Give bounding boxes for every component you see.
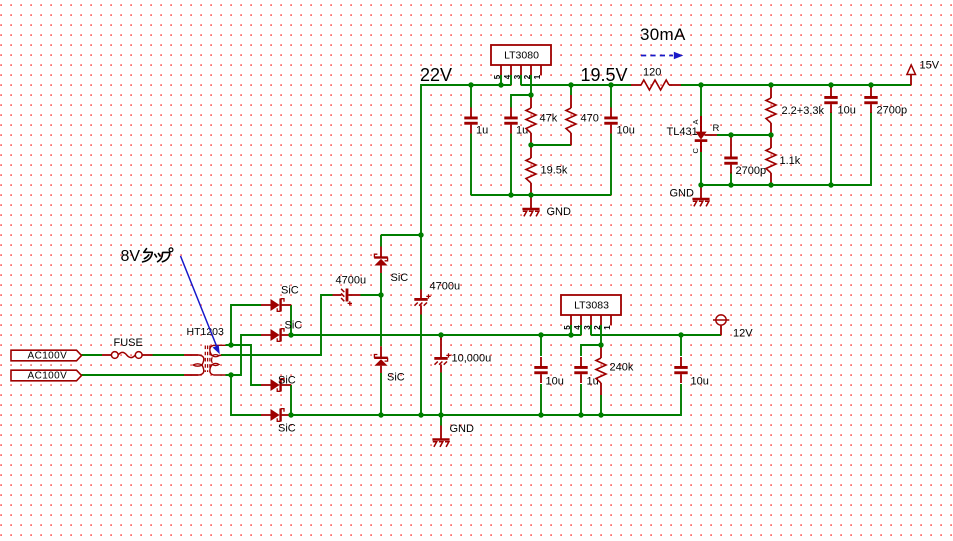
junction at 831,185 bbox=[828, 182, 833, 187]
resistor R7 240k bbox=[596, 345, 606, 395]
wire tap riser bbox=[321, 295, 333, 356]
wire D1 cathode drop bbox=[290, 305, 292, 335]
U3 pin A label bbox=[691, 119, 700, 124]
resistor R3 19.5k bbox=[526, 145, 536, 195]
svg-text:1.1k: 1.1k bbox=[780, 155, 801, 167]
wire C8 top lead bbox=[420, 235, 422, 290]
svg-text:470: 470 bbox=[581, 113, 599, 125]
C8 value 4700u bbox=[430, 281, 461, 293]
annotation 8V tap katakana bbox=[143, 248, 173, 262]
resistor R6 1.1k bbox=[766, 135, 776, 185]
U2 pin number 4 bbox=[573, 325, 582, 330]
svg-text:SiC: SiC bbox=[281, 285, 299, 297]
svg-text:47k: 47k bbox=[540, 113, 558, 125]
wire D5 bottom lead bbox=[380, 273, 382, 295]
junction at 831,85 bbox=[828, 82, 833, 87]
wire C1 bottom lead bbox=[470, 134, 472, 196]
svg-text:10u: 10u bbox=[838, 105, 856, 117]
U1 pin number 5 bbox=[493, 74, 502, 79]
U2 pin number 1 bbox=[603, 325, 612, 330]
svg-text:2700p: 2700p bbox=[736, 165, 767, 177]
svg-text:LT3083: LT3083 bbox=[574, 300, 609, 312]
terminal AC100V 2 bbox=[11, 370, 82, 381]
svg-text:22V: 22V bbox=[420, 65, 452, 85]
svg-text:HT1203: HT1203 bbox=[187, 326, 225, 338]
svg-text:SiC: SiC bbox=[285, 320, 303, 332]
terminal 15V output bbox=[907, 65, 916, 85]
svg-text:12V: 12V bbox=[733, 328, 753, 340]
svg-text:1u: 1u bbox=[476, 125, 488, 137]
svg-text:AC100V: AC100V bbox=[28, 351, 68, 362]
U2 pin number 5 bbox=[563, 325, 572, 330]
capacitor C12 1u bbox=[574, 357, 587, 383]
diode D4 SiC bbox=[261, 409, 291, 422]
ground GND LT3080 bbox=[522, 195, 539, 216]
wire C10 bottom lead bbox=[540, 384, 542, 415]
svg-text:8V: 8V bbox=[121, 248, 141, 265]
wire rectified rail bbox=[291, 334, 581, 336]
wire C8 bottom lead bbox=[420, 315, 422, 416]
wire 22V rail drop bbox=[420, 84, 422, 235]
wire LT3080 pin2 lead bbox=[530, 75, 532, 95]
U2 label LT3083 bbox=[574, 300, 609, 312]
diode D2 SiC bbox=[261, 329, 291, 342]
junction at 291,335 bbox=[288, 332, 293, 337]
GND label bottom section bbox=[450, 423, 475, 435]
C4 value 4700u bbox=[336, 275, 367, 287]
wire TL431 ref bbox=[717, 134, 771, 136]
svg-text:19.5k: 19.5k bbox=[541, 165, 568, 177]
svg-text:2700p: 2700p bbox=[877, 105, 908, 117]
wire D3 cathode drop bbox=[290, 385, 292, 415]
svg-text:3: 3 bbox=[513, 74, 522, 79]
junction at 771,185 bbox=[768, 182, 773, 187]
node 19.5V label bbox=[581, 65, 628, 85]
U3 pin C label bbox=[691, 148, 700, 154]
svg-text:5: 5 bbox=[563, 325, 572, 330]
junction at 731,135 bbox=[728, 132, 733, 137]
wire C6 bottom lead bbox=[830, 112, 832, 185]
svg-text:TL431: TL431 bbox=[667, 126, 698, 138]
wire AC line 1 bbox=[82, 354, 103, 356]
terminal AC100V 1 bbox=[11, 350, 82, 361]
svg-text:1u: 1u bbox=[516, 125, 528, 137]
capacitor C3 10u bbox=[604, 108, 617, 134]
capacitor C2 1u bbox=[504, 108, 517, 134]
svg-text:3: 3 bbox=[583, 325, 592, 330]
wire C10 top lead bbox=[540, 335, 542, 356]
wire LT3080 pin4 lead bbox=[510, 75, 512, 85]
wire secondary bottom to D4 bbox=[231, 375, 261, 415]
annotation 8V tap text bbox=[121, 248, 141, 265]
R1 value 47k bbox=[540, 113, 558, 125]
wire C12 bottom lead bbox=[580, 384, 582, 415]
junction at 731,185 bbox=[728, 182, 733, 187]
wire D6 top lead bbox=[380, 295, 382, 346]
R5 value 2.2+3.3k bbox=[782, 105, 825, 117]
wire TL431 anode bbox=[700, 85, 702, 116]
R7 value 240k bbox=[610, 362, 634, 374]
wire C3 bottom lead bbox=[610, 134, 612, 196]
ground GND TL431 bbox=[692, 185, 709, 206]
R6 value 1.1k bbox=[780, 155, 801, 167]
junction at 441,335 bbox=[438, 332, 443, 337]
C5 value 2700p bbox=[736, 165, 767, 177]
junction at 531,95 bbox=[528, 92, 533, 97]
junction at 231,345 bbox=[228, 342, 233, 347]
R3 value 19.5k bbox=[541, 165, 568, 177]
diode D3 SiC bbox=[261, 379, 291, 392]
svg-text:2: 2 bbox=[593, 325, 602, 330]
svg-text:GND: GND bbox=[547, 206, 572, 218]
GND label LT3080 section bbox=[547, 206, 572, 218]
C6 value 10u bbox=[838, 105, 856, 117]
wire LT3083 pin2 lead bbox=[600, 325, 602, 345]
T1 label HT1203 bbox=[187, 326, 225, 338]
C1 value 1u bbox=[476, 125, 488, 137]
svg-text:4: 4 bbox=[503, 74, 512, 79]
svg-text:10,000u: 10,000u bbox=[452, 353, 492, 365]
wire C3 top lead bbox=[610, 85, 612, 108]
wire SET node jog bbox=[511, 95, 531, 108]
node 15V label bbox=[920, 60, 940, 72]
svg-text:1: 1 bbox=[603, 325, 612, 330]
U1 label LT3080 bbox=[504, 50, 539, 62]
svg-text:GND: GND bbox=[670, 188, 695, 200]
junction at 421,415 bbox=[418, 412, 423, 417]
C10 value 10u bbox=[546, 376, 564, 388]
capacitor C7 2700p bbox=[864, 87, 877, 113]
wire secondary top to D3 bbox=[226, 345, 262, 385]
diode D1 SiC bbox=[261, 299, 291, 312]
junction at 511,195 bbox=[508, 192, 513, 197]
op-amp U2 LT3083 body bbox=[561, 295, 621, 315]
junction at 501,85 bbox=[498, 82, 503, 87]
wire GND stem bottom bbox=[440, 415, 442, 426]
C9 top lead red bbox=[440, 335, 442, 340]
capacitor C6 10u bbox=[824, 87, 837, 113]
U2 pin number 3 bbox=[583, 325, 592, 330]
wire GND bus bottom bbox=[291, 384, 681, 415]
annotation 30mA bbox=[640, 25, 686, 44]
junction at 601,415 bbox=[598, 412, 603, 417]
wire 19.5V rail bbox=[521, 84, 631, 86]
wire node link 235 bbox=[381, 234, 421, 236]
wire LT3083 SET wire bbox=[581, 345, 601, 356]
capacitor C8 4700u bbox=[414, 290, 430, 315]
capacitor C9 10,000u bbox=[434, 336, 450, 373]
svg-text:10u: 10u bbox=[691, 376, 709, 388]
junction at 381,295 bbox=[378, 292, 383, 297]
U3 pin R label bbox=[713, 123, 720, 134]
junction at 531,145 bbox=[528, 142, 533, 147]
diode D5 SiC bbox=[374, 247, 388, 274]
junction at 541,415 bbox=[538, 412, 543, 417]
D2 label SiC bbox=[285, 320, 303, 332]
junction at 681,335 bbox=[678, 332, 683, 337]
R2 value 470 bbox=[581, 113, 599, 125]
C11 value 10u bbox=[691, 376, 709, 388]
wire LT3083 pin3 lead bbox=[590, 325, 592, 335]
svg-text:A: A bbox=[691, 119, 700, 124]
U1 pin number 3 bbox=[513, 74, 522, 79]
wire GND bus LT3080 bbox=[471, 194, 611, 196]
svg-text:SiC: SiC bbox=[391, 272, 409, 284]
wire LT3083 pin5 lead bbox=[570, 325, 572, 335]
junction at 231,375 bbox=[228, 372, 233, 377]
fuse F1 bbox=[102, 352, 153, 359]
junction at 601,345 bbox=[598, 342, 603, 347]
annotation arrow 8V tap bbox=[181, 256, 220, 354]
junction at 421,235 bbox=[418, 232, 423, 237]
junction at 701,85 bbox=[698, 82, 703, 87]
svg-text:4700u: 4700u bbox=[336, 275, 367, 287]
wire 15V rail bbox=[681, 84, 911, 86]
svg-text:SiC: SiC bbox=[278, 375, 296, 387]
svg-text:SiC: SiC bbox=[387, 372, 405, 384]
wire TL431 cathode bbox=[700, 152, 702, 185]
GND label TL431 section bbox=[670, 188, 695, 200]
junction at 771,85 bbox=[768, 82, 773, 87]
wire C4 to node bbox=[361, 294, 382, 296]
wire 22V rail bbox=[421, 84, 511, 86]
junction at 571,335 bbox=[568, 332, 573, 337]
U1 pin number 4 bbox=[503, 74, 512, 79]
R4 value 120 bbox=[643, 67, 661, 79]
svg-text:4700u: 4700u bbox=[430, 281, 461, 293]
svg-text:R: R bbox=[713, 123, 720, 134]
U3 label TL431 bbox=[667, 126, 698, 138]
junction at 541,335 bbox=[538, 332, 543, 337]
junction at 571,85 bbox=[568, 82, 573, 87]
junction at 701,185 bbox=[698, 182, 703, 187]
D5 label SiC bbox=[391, 272, 409, 284]
C7 value 2700p bbox=[877, 105, 908, 117]
wire secondary top to D1 bbox=[231, 305, 261, 345]
wire GND bus right bbox=[701, 112, 871, 185]
AC100V label 1 bbox=[28, 351, 68, 362]
node 22V label bbox=[420, 65, 452, 85]
junction at 611,85 bbox=[608, 82, 613, 87]
ground GND bottom bbox=[432, 426, 449, 447]
svg-text:2: 2 bbox=[523, 74, 532, 79]
C3 value 10u bbox=[617, 125, 635, 137]
D3 label SiC bbox=[278, 375, 296, 387]
svg-text:AC100V: AC100V bbox=[28, 371, 68, 382]
svg-text:15V: 15V bbox=[920, 60, 940, 72]
capacitor C4 4700u horizontal bbox=[333, 289, 361, 306]
capacitor C11 10u bbox=[674, 357, 687, 383]
svg-text:GND: GND bbox=[450, 423, 475, 435]
junction at 471,85 bbox=[468, 82, 473, 87]
wire D6 bottom lead bbox=[380, 373, 382, 415]
wire secondary bottom to D2 bbox=[226, 335, 262, 375]
D1 label SiC bbox=[281, 285, 299, 297]
svg-text:2.2+3.3k: 2.2+3.3k bbox=[782, 105, 825, 117]
U1 pin number 1 bbox=[533, 74, 542, 79]
resistor R2 470 bbox=[566, 95, 576, 145]
wire C2 bottom lead bbox=[510, 134, 512, 196]
svg-text:FUSE: FUSE bbox=[114, 337, 143, 349]
junction at 441,415 bbox=[438, 412, 443, 417]
svg-text:120: 120 bbox=[643, 67, 661, 79]
wire C1 top lead bbox=[470, 85, 472, 108]
junction at 871,85 bbox=[868, 82, 873, 87]
svg-text:LT3080: LT3080 bbox=[504, 50, 539, 62]
capacitor C1 1u bbox=[464, 108, 477, 134]
wire C6 top lead bbox=[830, 85, 832, 88]
wire R7 240k bottom lead bbox=[600, 395, 602, 415]
junction at 291,415 bbox=[288, 412, 293, 417]
capacitor C5 2700p bbox=[724, 148, 737, 174]
C9 value 10,000u bbox=[452, 353, 492, 365]
resistor R1 47k bbox=[526, 95, 536, 145]
svg-text:5: 5 bbox=[493, 74, 502, 79]
wire fuse to transformer bbox=[153, 354, 185, 356]
annotation current arrow 30mA bbox=[641, 52, 683, 60]
svg-text:30mA: 30mA bbox=[640, 25, 686, 44]
U1 pin stubs bbox=[501, 65, 541, 75]
svg-text:1: 1 bbox=[533, 74, 542, 79]
C2 value 1u bbox=[516, 125, 528, 137]
capacitor C10 10u bbox=[534, 357, 547, 383]
junction at 381,415 bbox=[378, 412, 383, 417]
wire LT3080 pin5 lead bbox=[500, 75, 502, 85]
svg-text:10u: 10u bbox=[546, 376, 564, 388]
wire LT3080 pin3 lead bbox=[520, 75, 522, 85]
op-amp U1 LT3080 body bbox=[491, 45, 551, 65]
wire divider mid link bbox=[531, 144, 571, 146]
svg-text:SiC: SiC bbox=[278, 423, 296, 435]
U2 pin stubs bbox=[571, 315, 611, 325]
C12 value 1u bbox=[587, 376, 599, 388]
junction at 581,415 bbox=[578, 412, 583, 417]
wire 8V tap bbox=[221, 354, 322, 356]
resistor R5 2.2+3.3k bbox=[766, 85, 776, 135]
diode D6 SiC bbox=[374, 346, 388, 373]
svg-text:4: 4 bbox=[573, 325, 582, 330]
U2 pin number 2 bbox=[593, 325, 602, 330]
AC100V label 2 bbox=[28, 371, 68, 382]
wire AC line 2 bbox=[82, 374, 185, 376]
resistor R4 120 bbox=[631, 80, 681, 90]
svg-text:10u: 10u bbox=[617, 125, 635, 137]
terminal 12V output bbox=[713, 315, 729, 335]
F1 label FUSE bbox=[114, 337, 143, 349]
wire LT3083 pin4 lead bbox=[580, 325, 582, 335]
wire R2 470 top lead bbox=[570, 85, 572, 95]
junction at 771,135 bbox=[768, 132, 773, 137]
U1 pin number 2 bbox=[523, 74, 532, 79]
wire C7 top lead bbox=[870, 85, 872, 88]
C5 top lead red bbox=[730, 136, 732, 148]
svg-text:19.5V: 19.5V bbox=[581, 65, 628, 85]
junction at 531,195 bbox=[528, 192, 533, 197]
wire 12V rail bbox=[591, 334, 721, 336]
wire C11 top lead bbox=[680, 335, 682, 356]
D6 label SiC bbox=[387, 372, 405, 384]
node 12V label bbox=[733, 328, 753, 340]
D4 label SiC bbox=[278, 423, 296, 435]
svg-text:C: C bbox=[691, 148, 700, 154]
shunt regulator U3 TL431 bbox=[695, 116, 717, 152]
svg-text:240k: 240k bbox=[610, 362, 634, 374]
wire D5 top lead bbox=[380, 235, 382, 247]
transformer T1 HT1203 bbox=[184, 345, 226, 375]
wire C9 bottom lead bbox=[440, 373, 442, 416]
wire C5 bottom lead bbox=[730, 172, 732, 185]
